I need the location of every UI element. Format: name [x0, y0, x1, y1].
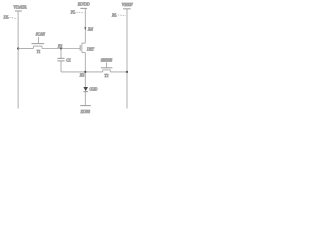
label PL with leader [70, 9, 85, 14]
svg-text:VREF: VREF [122, 2, 133, 7]
terminal bar VREF [123, 8, 131, 10]
transistor DRT [80, 43, 85, 53]
label RL with leader [111, 12, 126, 17]
junction dot RL [126, 71, 128, 73]
wire DRT source to N2 [84, 53, 86, 88]
svg-text:VDATA: VDATA [13, 5, 27, 10]
wire T1 source segment [18, 48, 33, 50]
capacitor C1 [57, 49, 64, 72]
transistor T1 [32, 37, 45, 49]
current arrow Id [84, 26, 94, 31]
wire ELVDD power line segment [84, 8, 86, 43]
diode OLED [83, 87, 88, 92]
svg-text:ELVDD: ELVDD [77, 1, 90, 6]
svg-text:N2: N2 [79, 72, 85, 77]
transistor T2 [101, 62, 112, 72]
svg-text:T1: T1 [37, 49, 41, 54]
svg-text:OLED: OLED [89, 87, 97, 92]
svg-text:RL: RL [111, 12, 117, 17]
wire OLED cathode to ELVSS [84, 92, 86, 106]
wire data line DL (vertical) [17, 11, 19, 109]
junction dot DL / T1 source [17, 47, 19, 49]
svg-text:ELVSS: ELVSS [80, 109, 90, 114]
svg-text:C1: C1 [66, 58, 71, 63]
node N1 [57, 43, 63, 49]
terminal bar ELVDD [80, 7, 87, 9]
wire T2 drain to RL [110, 71, 127, 73]
svg-text:DRT: DRT [86, 47, 95, 52]
wire reference line RL (vertical) [126, 9, 128, 109]
svg-text:PL: PL [70, 9, 76, 14]
svg-text:SENSE: SENSE [101, 57, 113, 62]
terminal bar VDATA [15, 10, 22, 12]
svg-text:DL: DL [3, 15, 10, 20]
label DL with leader [3, 15, 17, 20]
wire C1 bottom to T2 [61, 71, 103, 73]
svg-text:N1: N1 [57, 43, 63, 48]
svg-text:SCAN: SCAN [36, 32, 45, 37]
svg-text:Id: Id [87, 26, 95, 31]
svg-text:T2: T2 [104, 73, 108, 78]
node N2 [79, 71, 87, 78]
wire T1 drain to DRT gate [42, 48, 80, 50]
terminal bar ELVSS [80, 105, 91, 107]
